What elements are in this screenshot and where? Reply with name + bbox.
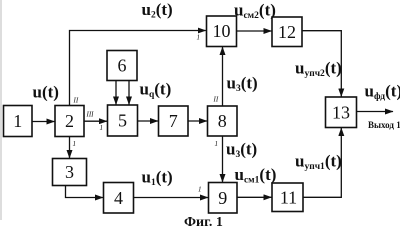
svg-text:7: 7 <box>169 111 178 131</box>
wire 2 down to 3 <box>69 137 71 159</box>
wire 8 up to 10 <box>222 47 224 106</box>
wire 3 down to 4 <box>66 186 104 198</box>
svg-text:u3(t): u3(t) <box>227 74 258 95</box>
svg-text:6: 6 <box>118 56 127 76</box>
svg-text:1: 1 <box>100 124 104 132</box>
block 1 <box>4 106 33 137</box>
wire 6 to 5 right arrow <box>128 81 130 105</box>
svg-text:u2(t): u2(t) <box>142 0 173 21</box>
wire 6 to 5 left arrow <box>115 81 117 105</box>
block 8 <box>208 106 238 136</box>
svg-text:1: 1 <box>13 111 22 131</box>
svg-text:10: 10 <box>213 21 231 41</box>
scan edge artifact <box>0 0 2 220</box>
block 2 <box>55 106 84 137</box>
block 11 <box>272 183 303 212</box>
svg-text:II: II <box>213 96 219 104</box>
svg-text:3: 3 <box>65 162 74 182</box>
wire 10 to 12 <box>237 30 272 32</box>
svg-text:uсм2(t): uсм2(t) <box>234 1 276 22</box>
svg-text:1: 1 <box>198 186 202 194</box>
wire 13 output <box>357 111 394 113</box>
svg-text:uупч1(t): uупч1(t) <box>295 152 342 173</box>
wire 2 to 5 <box>84 120 107 122</box>
wire 11 to 13 <box>303 128 341 197</box>
block 6 <box>107 51 137 81</box>
wire 5 to 7 <box>138 120 159 122</box>
block 12 <box>272 17 302 47</box>
svg-text:uсм1(t): uсм1(t) <box>235 165 277 186</box>
svg-text:13: 13 <box>332 102 350 122</box>
svg-text:u1(t): u1(t) <box>142 168 173 189</box>
svg-text:III: III <box>86 111 95 119</box>
block 7 <box>159 106 189 136</box>
svg-text:1: 1 <box>215 140 219 148</box>
svg-text:1: 1 <box>197 34 201 42</box>
wire 1 to 2 <box>32 121 55 123</box>
svg-text:12: 12 <box>278 22 296 42</box>
wire 4 to 9 <box>134 197 209 199</box>
wire 7 to 8 <box>188 120 207 122</box>
block 4 <box>104 183 134 214</box>
wire 12 to 13 <box>302 31 341 97</box>
svg-text:uq(t): uq(t) <box>140 80 172 101</box>
svg-text:1: 1 <box>73 140 77 148</box>
svg-text:11: 11 <box>280 188 297 208</box>
svg-text:4: 4 <box>114 188 123 208</box>
svg-text:2: 2 <box>65 111 74 131</box>
svg-text:u3(t): u3(t) <box>226 140 257 161</box>
svg-text:5: 5 <box>118 111 127 131</box>
svg-text:9: 9 <box>218 188 227 208</box>
block 10 <box>207 16 237 47</box>
block 3 <box>53 159 87 186</box>
wire 2 up to 10 <box>70 31 206 106</box>
block 13 <box>326 97 357 128</box>
svg-text:u(t): u(t) <box>33 83 59 102</box>
block 5 <box>108 105 138 136</box>
block 9 <box>209 183 238 214</box>
svg-text:Выход 1: Выход 1 <box>368 120 400 130</box>
wire 9 to 11 <box>237 196 272 198</box>
svg-text:uфд(t): uфд(t) <box>365 82 400 103</box>
svg-text:uупч2(t): uупч2(t) <box>295 59 342 80</box>
svg-text:II: II <box>73 97 79 105</box>
svg-text:Фиг. 1: Фиг. 1 <box>184 215 223 230</box>
svg-text:8: 8 <box>218 111 227 131</box>
wire 8 down to 9 <box>222 136 224 182</box>
